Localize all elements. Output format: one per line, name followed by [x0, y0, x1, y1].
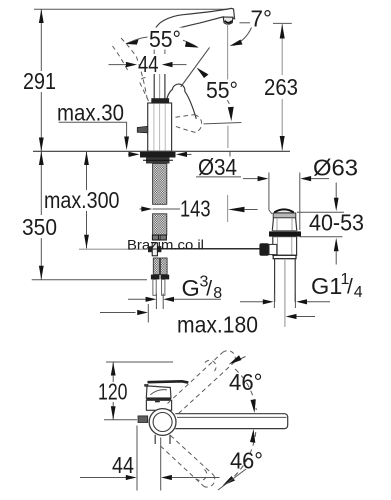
stream axis extension at 143 level	[227, 195, 229, 222]
label 55° (lower)	[205, 80, 241, 101]
svg-text:G1: G1	[311, 273, 342, 299]
dimension 120 vertical line	[111, 362, 116, 420]
svg-text:8: 8	[213, 285, 222, 302]
pop-up rod to drain	[148, 248, 260, 250]
dimension G3/8 arrows	[128, 294, 221, 310]
drain body bottom band	[273, 255, 296, 258]
svg-text:/: /	[347, 276, 353, 299]
label G 3/8	[182, 274, 223, 303]
dimension 263 vertical line	[280, 24, 285, 150]
46° upper leader and arrow	[233, 357, 246, 363]
knob link piece	[269, 244, 277, 254]
plan: lever arc inside base	[150, 390, 167, 395]
label G1 1/4	[311, 271, 363, 301]
tailpipe centerline	[284, 259, 286, 327]
plan: lever paddle (thick top bar)	[148, 381, 189, 382]
plan: left tab	[138, 416, 148, 423]
46° lower arc	[229, 432, 256, 481]
escutcheon black band below deck	[140, 152, 176, 158]
threaded shank (stippled) upper part	[153, 164, 167, 205]
flexible hose (left, stippled)	[153, 258, 159, 275]
dimension 44 (top)	[109, 62, 187, 67]
plan: spout bar	[175, 414, 287, 429]
plan: swivel circle inner	[153, 413, 172, 432]
drain neck	[272, 218, 297, 231]
40-53 arrows	[334, 183, 339, 265]
lower reference plane line (hose connection level)	[32, 279, 147, 281]
plan: below-circle stub	[155, 435, 170, 444]
svg-text:46°: 46°	[230, 448, 263, 474]
dimension Ø34 arrows at escutcheon	[128, 152, 192, 157]
Ø34 underline leader	[196, 176, 241, 178]
dimension 40-53 upper line	[297, 211, 344, 213]
dashed spout rotated up 46°	[168, 353, 223, 404]
dimension max.300 vertical line	[84, 151, 89, 248]
svg-text:291: 291	[23, 68, 56, 94]
riser pipe solid lines	[153, 74, 155, 99]
svg-text:350: 350	[22, 214, 57, 240]
dashed rotated spout (swung left) silhouette	[121, 38, 147, 98]
46° lower leader tail	[218, 469, 246, 490]
drain: Ø63 extension lines	[268, 173, 270, 211]
aerator at spout tip	[223, 17, 233, 24]
drain body	[273, 237, 297, 256]
plan: paddle left wedge	[144, 384, 148, 387]
svg-text:max.30: max.30	[57, 100, 124, 126]
dashed rotated lever (pointing right-down)	[176, 115, 195, 118]
dimension Ø63	[243, 176, 329, 181]
rotated stream line	[227, 126, 229, 148]
tailpipe	[274, 259, 276, 302]
dimension 44 (plan) extension lines	[136, 426, 138, 491]
svg-text:/: /	[206, 278, 212, 301]
angle 55° upper arc	[127, 36, 198, 47]
svg-text:143: 143	[180, 196, 211, 222]
rotated spout underside thin line	[204, 123, 242, 124]
deck / mounting surface line	[33, 150, 290, 152]
body top joint dark band	[151, 98, 169, 103]
55° lower arrowheads	[197, 68, 209, 79]
rod cross fitting on shank	[152, 243, 157, 256]
hose connector blocks	[151, 275, 160, 280]
spout outline	[155, 8, 235, 32]
G3/8 nipples	[153, 279, 156, 295]
dimension max.180	[100, 304, 315, 323]
locking nut band	[146, 158, 170, 164]
svg-text:max.300: max.300	[44, 187, 120, 213]
dimension 143	[140, 206, 258, 212]
svg-text:44: 44	[138, 51, 159, 77]
pop-up rod knob	[259, 243, 269, 256]
svg-text:120: 120	[98, 379, 128, 405]
svg-text:Brazim.co.il: Brazim.co.il	[127, 237, 204, 253]
dashed spout rotated down 46°	[171, 436, 214, 476]
plan: spout bar inner line	[177, 416, 287, 418]
svg-text:46°: 46°	[229, 369, 263, 395]
plan: base dark band	[146, 398, 171, 400]
shank end fittings	[152, 235, 158, 240]
svg-text:7°: 7°	[251, 6, 273, 32]
svg-text:max.180: max.180	[177, 312, 258, 338]
svg-text:263: 263	[264, 74, 298, 100]
svg-text:Ø34: Ø34	[198, 154, 237, 180]
tick below deck at Ø34 label start	[229, 152, 231, 157]
dimension G1 1/4 arrows at tailpipe	[240, 294, 330, 308]
120 bottom extension line	[104, 419, 137, 421]
dimension 40-53 lower line	[300, 236, 343, 238]
dimension 350 vertical line	[39, 151, 44, 279]
faucet body	[148, 103, 172, 151]
threaded shank lower part	[153, 214, 167, 235]
stream axis line from aerator	[227, 24, 229, 80]
handle tip tab on body left	[137, 126, 147, 133]
plan: lever base quad	[146, 386, 171, 398]
svg-text:55°: 55°	[206, 77, 238, 103]
angle 55° lower: rotated stream diagonal	[181, 48, 210, 87]
body inner cartridge lines	[153, 104, 155, 151]
dashed rotated lever (pointing up-left)	[140, 78, 149, 101]
lever handle (curved horn)	[166, 84, 196, 119]
plan: body block	[146, 400, 171, 410]
riser pipe dashed upper extension	[153, 50, 155, 57]
svg-text:Ø63: Ø63	[313, 155, 358, 181]
leader diagonal near lever	[181, 48, 210, 87]
flexible hose (right, stippled)	[161, 258, 168, 275]
label 55° (upper)	[148, 28, 184, 49]
plan: swivel circle outer	[149, 409, 176, 436]
46° upper arc	[235, 369, 256, 410]
drain dome rim	[273, 213, 296, 218]
120 top extension line	[106, 361, 173, 363]
svg-text:55°: 55°	[149, 26, 181, 52]
dimension 44 (plan) arrows	[80, 475, 220, 480]
svg-text:G: G	[182, 275, 200, 301]
wire: top extension line of 291	[34, 8, 228, 10]
angle 7° leader lines	[240, 22, 251, 24]
svg-text:4: 4	[354, 284, 363, 301]
riser pipe centerline	[159, 74, 161, 99]
drain dome cap	[274, 209, 294, 213]
angle 7° arc with arrow	[234, 28, 252, 46]
svg-text:40-53: 40-53	[309, 210, 364, 236]
dimension max.30 leader	[59, 122, 127, 137]
drain flange (black band)	[269, 231, 301, 236]
svg-text:44: 44	[112, 452, 134, 478]
lower reference line at max.300 arrow	[79, 248, 148, 250]
dimension 291 vertical line	[39, 9, 44, 151]
